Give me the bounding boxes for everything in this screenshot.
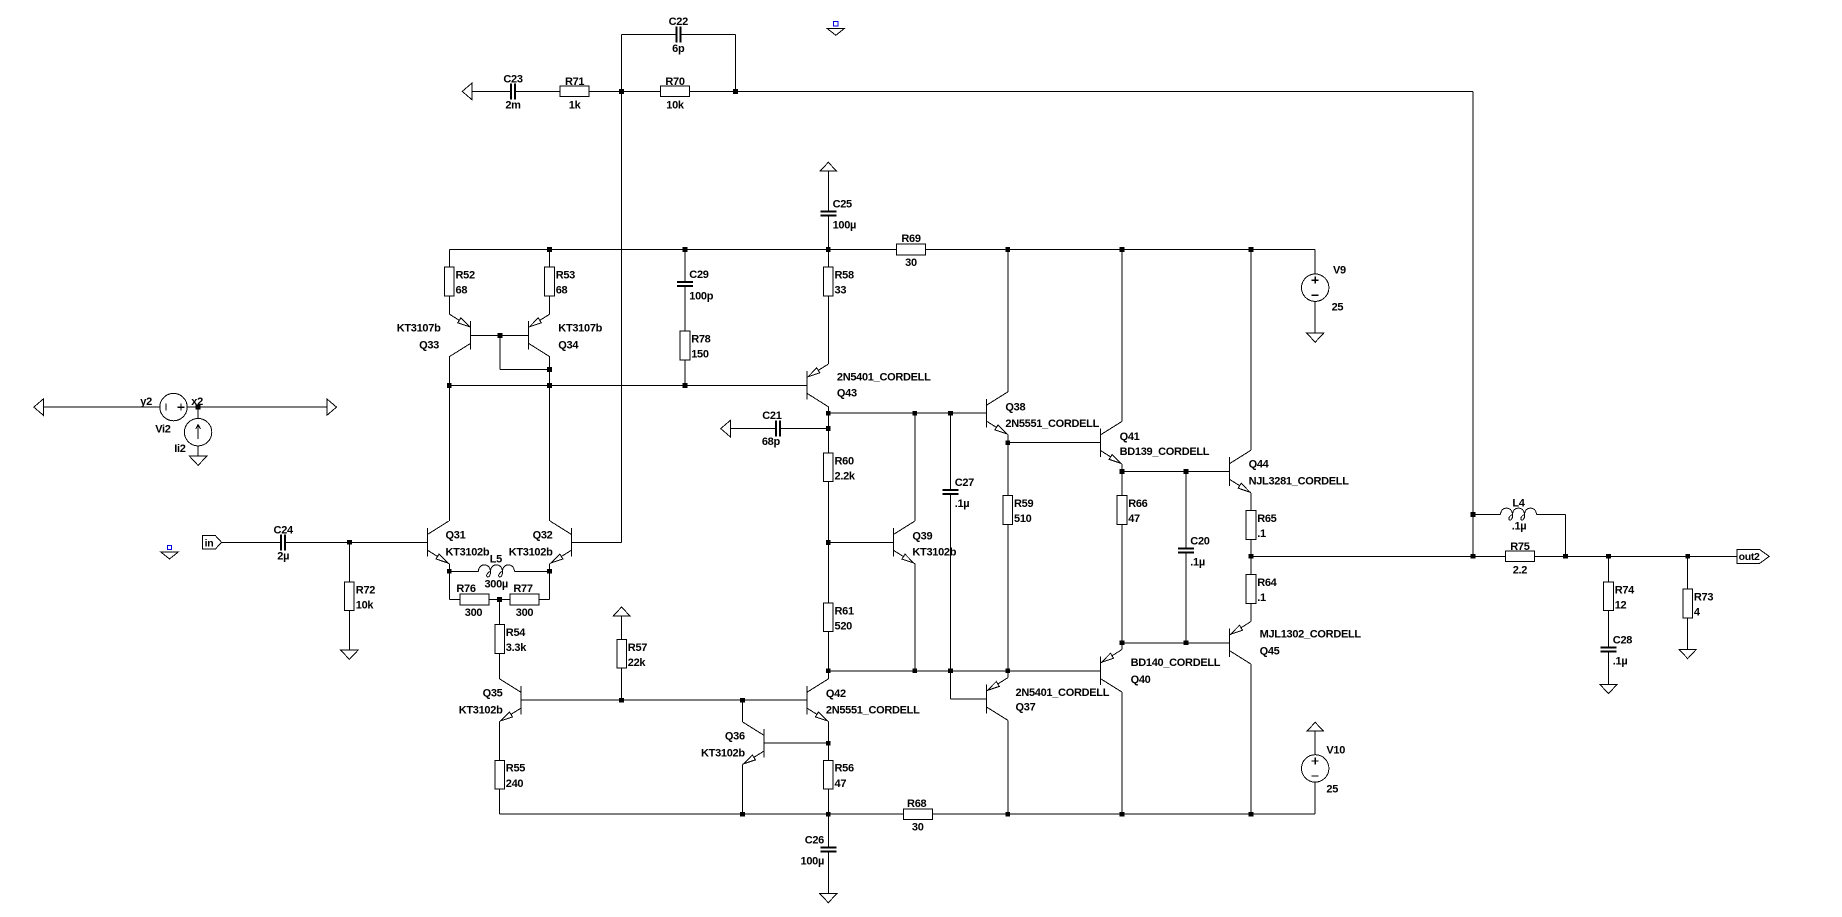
wire Q38 collector <box>1007 250 1009 392</box>
wire <box>43 406 161 408</box>
svg-text:3.3k: 3.3k <box>506 642 527 654</box>
svg-text:R55: R55 <box>506 763 525 775</box>
svg-text:150: 150 <box>691 349 709 361</box>
svg-text:R58: R58 <box>835 270 854 282</box>
wire <box>589 90 660 92</box>
resistor R73 <box>1683 589 1693 618</box>
wire C22 right leg <box>680 34 735 36</box>
svg-text:C29: C29 <box>689 269 708 281</box>
node junction rail/Q39 emitter <box>912 668 917 673</box>
capacitor C25 <box>820 210 836 212</box>
svg-text:Q41: Q41 <box>1120 431 1140 443</box>
svg-text:.1µ: .1µ <box>1613 656 1628 668</box>
wire <box>187 406 327 408</box>
off-page connector arrow C21 <box>721 420 731 436</box>
resistor R78 <box>680 331 690 360</box>
svg-text:R53: R53 <box>556 270 575 282</box>
wire R61 branch <box>827 542 829 670</box>
wire R56 branch <box>827 743 829 814</box>
wire Q39 base <box>828 541 893 543</box>
svg-text:22k: 22k <box>628 657 647 669</box>
node junction R76/R77 <box>497 597 502 602</box>
ground V9 <box>1307 333 1324 342</box>
node junction rail/R56-C26 <box>826 812 831 817</box>
node junction rail/R59 bottom <box>1005 668 1010 673</box>
wire <box>197 446 199 456</box>
wire output bus <box>1251 555 1737 557</box>
svg-text:510: 510 <box>1014 513 1032 525</box>
wire Q39 emitter <box>914 564 916 671</box>
wire R73 branch <box>1687 556 1689 649</box>
svg-text:R59: R59 <box>1014 498 1033 510</box>
svg-text:47: 47 <box>1128 513 1140 525</box>
resistor R76 <box>460 594 489 605</box>
node junction rail/R53 <box>547 247 552 252</box>
svg-text:30: 30 <box>912 822 924 834</box>
svg-text:R70: R70 <box>665 76 684 88</box>
floating ground marker top <box>834 22 838 26</box>
wire <box>1250 539 1252 556</box>
floating ground marker near in <box>167 545 171 549</box>
ground R73 <box>1679 649 1696 658</box>
off-page connector arrow x2 right <box>327 399 337 415</box>
resistor R52 <box>445 267 455 296</box>
svg-text:R60: R60 <box>835 455 854 467</box>
resistor R69 <box>896 244 925 255</box>
node junction R73 top <box>1685 554 1690 559</box>
svg-text:.1µ: .1µ <box>1512 520 1527 532</box>
node junction rail/C29 <box>683 247 688 252</box>
svg-text:30: 30 <box>905 257 917 269</box>
svg-text:R68: R68 <box>907 798 926 810</box>
resistor R60 <box>824 453 834 482</box>
wire R58 branch <box>827 250 829 365</box>
wire Q39 collector <box>914 413 916 521</box>
wire <box>472 90 511 92</box>
wire Q41 collector <box>1121 250 1123 422</box>
svg-text:KT3102b: KT3102b <box>701 747 745 759</box>
wire L4 right <box>1537 514 1566 516</box>
wire Q44 collector <box>1250 250 1252 451</box>
voltage source V10 <box>1302 755 1329 782</box>
input flag in <box>202 536 221 549</box>
svg-text:NJL3281_CORDELL: NJL3281_CORDELL <box>1249 475 1350 487</box>
svg-text:100µ: 100µ <box>833 220 857 232</box>
svg-text:Q44: Q44 <box>1249 458 1270 470</box>
node junction C20 bottom <box>1184 640 1189 645</box>
svg-text:Q35: Q35 <box>483 688 503 700</box>
wire Q34 emitter <box>549 313 551 315</box>
wire R54 branch <box>499 600 501 679</box>
resistor R68 <box>903 809 932 820</box>
svg-text:240: 240 <box>506 778 524 790</box>
svg-text:C24: C24 <box>274 525 294 537</box>
wire Q33 collector <box>448 357 450 386</box>
svg-text:2N5401_CORDELL: 2N5401_CORDELL <box>837 371 931 383</box>
wire R53 branch <box>549 250 551 314</box>
svg-text:R78: R78 <box>691 334 710 346</box>
transistor Q33 <box>448 313 450 315</box>
wire Q37 emitter <box>1007 671 1009 678</box>
wire Q36 collector <box>742 700 744 722</box>
ground C28 <box>1600 684 1617 693</box>
svg-text:2N5551_CORDELL: 2N5551_CORDELL <box>1005 418 1099 430</box>
svg-text:R76: R76 <box>456 583 475 595</box>
svg-text:C21: C21 <box>762 410 781 422</box>
svg-text:Q31: Q31 <box>446 530 466 542</box>
node junction R57/base line <box>619 698 624 703</box>
svg-text:Q34: Q34 <box>558 340 579 352</box>
transistor Q43 <box>806 371 808 400</box>
svg-text:R57: R57 <box>628 642 647 654</box>
transistor Q44 <box>1229 457 1231 486</box>
wire L4 left <box>1472 515 1474 557</box>
node junction bus/Q39 collector <box>912 411 917 416</box>
wire <box>449 570 478 572</box>
wire Q43 collector drop <box>827 407 829 543</box>
resistor R64 <box>1246 575 1256 604</box>
node junction rail2/X2 <box>547 383 552 388</box>
inductor L4 <box>1501 508 1537 520</box>
node junction C24/R72 <box>347 540 352 545</box>
svg-text:R72: R72 <box>356 584 375 596</box>
power arrow C25 <box>820 162 836 171</box>
svg-text:12: 12 <box>1615 600 1627 612</box>
node junction L4 right <box>1563 554 1568 559</box>
svg-text:300µ: 300µ <box>484 579 508 591</box>
wire <box>1250 556 1252 574</box>
wire R76 loop <box>448 571 450 599</box>
node junction C20 top <box>1184 469 1189 474</box>
wire C29 branch <box>684 250 686 283</box>
resistor R74 <box>1604 582 1614 611</box>
svg-text:KT3102b: KT3102b <box>446 546 490 558</box>
svg-text:10k: 10k <box>356 600 375 612</box>
node junction C21 <box>826 426 831 431</box>
svg-text:6p: 6p <box>672 43 685 55</box>
node junction rail/Q36 emitter <box>740 812 745 817</box>
wire Q36 base <box>764 742 828 744</box>
wire C20 branch <box>1185 472 1187 549</box>
svg-text:R74: R74 <box>1615 584 1635 596</box>
svg-text:R71: R71 <box>565 76 584 88</box>
svg-text:out2: out2 <box>1739 551 1760 563</box>
svg-text:25: 25 <box>1326 783 1338 795</box>
svg-text:R52: R52 <box>456 270 475 282</box>
wire <box>515 90 560 92</box>
wire <box>827 171 829 211</box>
node junction bases <box>498 333 503 338</box>
svg-text:R66: R66 <box>1128 498 1147 510</box>
svg-text:1k: 1k <box>569 100 582 112</box>
wire V9 drop <box>1314 250 1316 275</box>
svg-text:C27: C27 <box>955 477 974 489</box>
node junction C22 right <box>733 89 738 94</box>
node junction feedback tap <box>1471 554 1476 559</box>
node junction Q36 collector/base line <box>740 698 745 703</box>
resistor R75 <box>1505 551 1534 562</box>
svg-text:R54: R54 <box>506 627 526 639</box>
svg-text:Q42: Q42 <box>826 688 846 700</box>
resistor R77 <box>510 594 539 605</box>
wire Q31 collector <box>448 385 450 521</box>
node junction rail/Q40 collector <box>1120 812 1125 817</box>
power arrow V10 <box>1307 722 1323 731</box>
wire VAS base line <box>521 699 807 701</box>
wire <box>1608 652 1610 685</box>
svg-text:68p: 68p <box>762 436 781 448</box>
wire second rail <box>449 384 807 386</box>
wire Q37 collector <box>1007 720 1009 814</box>
svg-text:Q36: Q36 <box>725 731 745 743</box>
wire Q44 base bus <box>1122 471 1230 473</box>
current source Ii2 <box>184 419 211 446</box>
wire feedback vertical <box>1472 91 1474 556</box>
resistor R56 <box>824 760 834 789</box>
resistor R65 <box>1246 511 1256 540</box>
svg-text:R77: R77 <box>513 583 532 595</box>
svg-text:.1: .1 <box>1257 528 1266 540</box>
svg-text:C23: C23 <box>503 74 522 86</box>
transistor Q38 <box>985 399 987 428</box>
svg-text:Q39: Q39 <box>912 530 932 542</box>
svg-text:2.2: 2.2 <box>1513 564 1528 576</box>
node junction rail/Q37 collector <box>1005 812 1010 817</box>
wire Q32 base vertical <box>621 91 623 542</box>
inductor L5 <box>478 565 514 577</box>
ground R72 <box>341 650 358 659</box>
node junction rail/Q42 collector <box>826 668 831 673</box>
wire <box>949 494 951 671</box>
node junction rail2/R78 <box>683 383 688 388</box>
wire Q45 collector <box>1250 664 1252 814</box>
svg-text:C22: C22 <box>669 16 688 28</box>
voltage source Vi2 <box>160 393 187 420</box>
transistor Q37 <box>985 685 987 714</box>
wire lower mid rail <box>828 670 1100 672</box>
node junction Q43 collector bus <box>826 411 831 416</box>
svg-text:Q38: Q38 <box>1005 402 1025 414</box>
svg-text:.1: .1 <box>1257 592 1266 604</box>
svg-text:R69: R69 <box>901 233 920 245</box>
wire R57 branch <box>621 616 623 700</box>
svg-text:68: 68 <box>556 285 568 297</box>
svg-text:68: 68 <box>456 285 468 297</box>
power arrow R57 <box>613 607 629 616</box>
wire <box>690 90 1473 92</box>
node junction rail/C27 bottom <box>948 668 953 673</box>
transistor Q36 <box>763 729 765 758</box>
svg-text:C28: C28 <box>1613 634 1632 646</box>
wire Q36 emitter <box>742 765 744 815</box>
svg-text:R56: R56 <box>835 763 854 775</box>
wire Q35 emitter <box>499 722 501 761</box>
svg-text:100p: 100p <box>689 291 713 303</box>
svg-text:R61: R61 <box>835 605 854 617</box>
svg-text:R64: R64 <box>1257 577 1277 589</box>
wire <box>222 541 282 543</box>
ground C26 <box>820 894 837 903</box>
wire Q31 emitter <box>448 564 450 572</box>
node junction rail/R58-C25 <box>826 247 831 252</box>
wire <box>1185 553 1187 643</box>
svg-text:y2: y2 <box>140 396 152 408</box>
svg-text:2.2k: 2.2k <box>835 471 856 483</box>
transistor Q34 <box>527 321 529 350</box>
svg-text:Q40: Q40 <box>1131 674 1151 686</box>
svg-text:in: in <box>205 537 214 549</box>
capacitor C26 <box>827 814 829 847</box>
wire top supply rail <box>449 249 1315 251</box>
svg-text:100µ: 100µ <box>801 856 825 868</box>
svg-text:MJL1302_CORDELL: MJL1302_CORDELL <box>1260 629 1362 641</box>
node junction R60/R61 Q39 base <box>826 540 831 545</box>
resistor R66 <box>1117 496 1127 525</box>
resistor R61 <box>824 603 834 632</box>
wire R52 branch <box>448 250 450 314</box>
svg-text:2µ: 2µ <box>277 551 289 563</box>
resistor R71 <box>560 86 589 97</box>
svg-text:Vi2: Vi2 <box>155 423 171 435</box>
svg-text:R75: R75 <box>1510 541 1529 553</box>
svg-text:R73: R73 <box>1694 592 1713 604</box>
node junction R74 top <box>1606 554 1611 559</box>
off-page connector arrow (feedback input) <box>462 83 472 99</box>
voltage source V9 <box>1302 274 1329 301</box>
wire R77 loop <box>500 599 550 601</box>
transistor Q40 <box>1100 657 1102 686</box>
node junction L5 right <box>547 569 552 574</box>
output flag out2 <box>1737 549 1769 563</box>
svg-text:KT3102b: KT3102b <box>509 546 553 558</box>
svg-text:BD139_CORDELL: BD139_CORDELL <box>1120 446 1210 458</box>
node junction Q36 base/Q42 emitter <box>826 741 831 746</box>
wire Q32 collector <box>549 385 551 521</box>
resistor R72 <box>345 582 355 611</box>
node junction Q38 emitter/R59 <box>1005 440 1010 445</box>
wire <box>285 541 427 543</box>
wire Q34 collector <box>549 357 551 386</box>
svg-text:Q32: Q32 <box>533 530 553 542</box>
node junction rail/Q38 collector <box>1005 247 1010 252</box>
node junction output/R65 <box>1249 554 1254 559</box>
wire Q42 collector <box>827 671 829 679</box>
svg-text:25: 25 <box>1332 302 1344 314</box>
wire Q40 emitter <box>1121 643 1123 650</box>
svg-text:KT3107b: KT3107b <box>558 323 602 335</box>
wire base-collector tie <box>499 335 501 369</box>
node junction tie/Q34 collector <box>547 367 552 372</box>
svg-text:33: 33 <box>835 285 847 297</box>
svg-text:Q43: Q43 <box>837 387 857 399</box>
capacitor C28 <box>1601 647 1617 649</box>
svg-text:KT3102b: KT3102b <box>459 704 503 716</box>
svg-text:300: 300 <box>465 607 483 619</box>
svg-text:.1µ: .1µ <box>1190 557 1205 569</box>
resistor R58 <box>824 267 834 296</box>
node junction rail/Q41 collector <box>1120 247 1125 252</box>
wire base tie <box>471 334 529 336</box>
node junction Q41 emitter/R66 <box>1120 469 1125 474</box>
transistor Q35 <box>520 686 522 715</box>
wire R59 branch <box>1007 443 1009 671</box>
svg-text:L4: L4 <box>1512 497 1525 509</box>
wire Q44 emitter <box>1250 493 1252 511</box>
wire <box>780 428 828 430</box>
svg-text:Q37: Q37 <box>1016 702 1036 714</box>
svg-text:R65: R65 <box>1257 513 1276 525</box>
node junction rail/Q45 collector <box>1249 812 1254 817</box>
transistor Q41 <box>1100 428 1102 457</box>
svg-text:.1µ: .1µ <box>955 498 970 510</box>
wire R74 branch <box>1608 556 1610 647</box>
svg-text:C26: C26 <box>805 834 824 846</box>
node junction L5 left <box>447 569 452 574</box>
svg-text:BD140_CORDELL: BD140_CORDELL <box>1131 657 1221 669</box>
wire Q41 base <box>1008 442 1101 444</box>
svg-text:2N5551_CORDELL: 2N5551_CORDELL <box>826 705 920 717</box>
node junction R71/R70 <box>619 89 624 94</box>
node junction bus/C27 <box>948 411 953 416</box>
svg-text:V10: V10 <box>1326 745 1345 757</box>
wire Q38 emitter <box>1007 435 1009 443</box>
node junction rail2/X1 <box>447 383 452 388</box>
svg-text:L5: L5 <box>490 554 502 566</box>
wire C22 left leg <box>621 35 623 92</box>
wire <box>197 407 199 418</box>
wire Q37 base <box>949 671 951 699</box>
wire collector bus <box>828 412 986 414</box>
svg-text:C25: C25 <box>833 198 852 210</box>
svg-text:C20: C20 <box>1190 535 1209 547</box>
capacitor C22 <box>675 27 677 43</box>
wire Q32 emitter <box>549 564 551 572</box>
capacitor C20 <box>1178 548 1194 550</box>
transistor Q39 <box>892 528 894 557</box>
wire <box>949 413 951 490</box>
svg-text:Ii2: Ii2 <box>174 443 186 455</box>
svg-text:V9: V9 <box>1333 265 1346 277</box>
wire Q41 emitter <box>1121 464 1123 472</box>
svg-text:47: 47 <box>835 778 847 790</box>
wire R72 branch <box>348 542 350 650</box>
node junction rail/Q44 collector <box>1249 247 1254 252</box>
svg-text:520: 520 <box>835 621 853 633</box>
capacitor C23 <box>510 83 512 99</box>
wire <box>827 215 829 249</box>
wire Q42 emitter <box>827 722 829 744</box>
wire bottom rail <box>500 813 1316 815</box>
svg-text:KT3107b: KT3107b <box>397 323 441 335</box>
wire <box>1314 731 1316 755</box>
ground Ii2 <box>190 456 207 465</box>
resistor R55 <box>495 760 505 789</box>
wire <box>684 286 686 385</box>
transistor Q32 <box>570 528 572 557</box>
wire <box>514 570 549 572</box>
off-page connector arrow y2 left <box>34 399 44 415</box>
wire R66 branch <box>1121 472 1123 643</box>
svg-text:2m: 2m <box>505 100 521 112</box>
capacitor C24 <box>280 534 282 550</box>
wire <box>1314 301 1316 333</box>
node junction R66 bottom <box>1120 640 1125 645</box>
wire <box>730 428 776 430</box>
capacitor C29 <box>677 281 693 283</box>
transistor Q42 <box>806 686 808 715</box>
capacitor C21 <box>775 421 777 437</box>
wire <box>499 789 501 814</box>
